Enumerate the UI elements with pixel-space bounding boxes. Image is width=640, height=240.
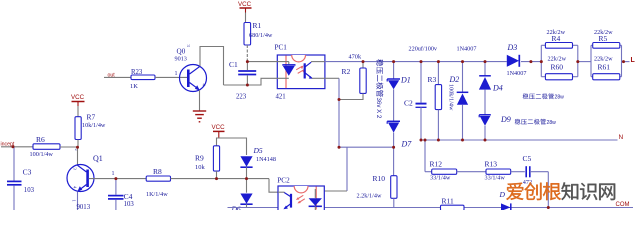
svg-text:L: L — [631, 57, 636, 64]
svg-text:C1: C1 — [229, 60, 238, 69]
svg-text:D7: D7 — [401, 140, 413, 149]
svg-text:R5: R5 — [599, 34, 608, 43]
svg-text:1N4007: 1N4007 — [507, 70, 527, 77]
svg-text:9013: 9013 — [77, 204, 91, 210]
svg-text:1N4148: 1N4148 — [256, 156, 276, 163]
svg-text:R4: R4 — [552, 34, 561, 43]
svg-text:C4: C4 — [124, 192, 133, 201]
svg-text:10k/1/4w: 10k/1/4w — [82, 122, 106, 129]
svg-text:R60: R60 — [551, 63, 564, 72]
svg-text:R8: R8 — [153, 167, 162, 176]
svg-text:100/1/4w: 100/1/4w — [30, 151, 54, 158]
svg-text:9013: 9013 — [175, 55, 187, 62]
svg-text:680/1/4w: 680/1/4w — [249, 32, 273, 39]
svg-text:R2: R2 — [342, 67, 351, 76]
svg-text:R23: R23 — [131, 69, 143, 76]
svg-text:R6: R6 — [36, 135, 45, 144]
svg-text:470k: 470k — [349, 53, 362, 60]
svg-text:out: out — [108, 73, 116, 79]
svg-text:10k: 10k — [195, 164, 206, 171]
svg-text:D4: D4 — [492, 84, 503, 93]
svg-text:VCC: VCC — [212, 124, 226, 131]
svg-text:C3: C3 — [23, 168, 32, 177]
svg-text:C5: C5 — [523, 154, 532, 163]
svg-text:VCC: VCC — [238, 1, 252, 8]
svg-text:R7: R7 — [87, 113, 96, 122]
svg-text:28w: 28w — [547, 120, 557, 126]
svg-text:1: 1 — [175, 71, 178, 77]
svg-text:C2: C2 — [404, 99, 413, 108]
svg-text:1K: 1K — [130, 83, 138, 90]
svg-text:Q1: Q1 — [93, 154, 103, 163]
svg-text:1: 1 — [72, 200, 77, 202]
svg-text:D9: D9 — [500, 115, 511, 124]
svg-text:D3: D3 — [507, 43, 518, 52]
svg-text:R10: R10 — [373, 174, 386, 183]
svg-text:1K/1/4w: 1K/1/4w — [146, 191, 168, 198]
svg-text:VCC: VCC — [71, 94, 85, 101]
svg-text:PC2: PC2 — [277, 177, 290, 185]
svg-text:33/1/4w: 33/1/4w — [430, 175, 451, 182]
svg-text:R12: R12 — [430, 160, 443, 169]
svg-text:103: 103 — [124, 201, 135, 208]
svg-text:2: 2 — [74, 149, 79, 151]
svg-text:36v X 2: 36v X 2 — [375, 98, 382, 119]
svg-text:R61: R61 — [598, 63, 611, 72]
svg-text:103: 103 — [24, 187, 35, 194]
svg-text:COM: COM — [616, 202, 630, 208]
svg-text:33/1/4w: 33/1/4w — [485, 175, 506, 182]
svg-text:D: D — [499, 190, 506, 199]
svg-text:D2: D2 — [449, 75, 460, 84]
svg-text:100k/1/4w: 100k/1/4w — [448, 84, 455, 111]
svg-text:R3: R3 — [428, 75, 437, 84]
svg-text:R13: R13 — [485, 160, 498, 169]
svg-text:R1: R1 — [253, 21, 262, 30]
svg-text:Q0: Q0 — [177, 48, 186, 56]
svg-text:2.2k/1/4w: 2.2k/1/4w — [357, 193, 382, 200]
svg-text:223: 223 — [236, 94, 247, 101]
svg-text:D1: D1 — [400, 76, 411, 85]
svg-text:R11: R11 — [442, 197, 454, 206]
svg-text:D5: D5 — [253, 146, 263, 155]
svg-text:1: 1 — [112, 171, 115, 177]
svg-text:220uf/100v: 220uf/100v — [409, 46, 438, 53]
svg-text:R9: R9 — [195, 153, 204, 162]
svg-text:PC1: PC1 — [275, 44, 288, 52]
svg-text:28w: 28w — [555, 95, 565, 101]
svg-text:N: N — [619, 134, 624, 141]
svg-text:1N4007: 1N4007 — [457, 46, 477, 53]
svg-text:421: 421 — [276, 94, 286, 101]
